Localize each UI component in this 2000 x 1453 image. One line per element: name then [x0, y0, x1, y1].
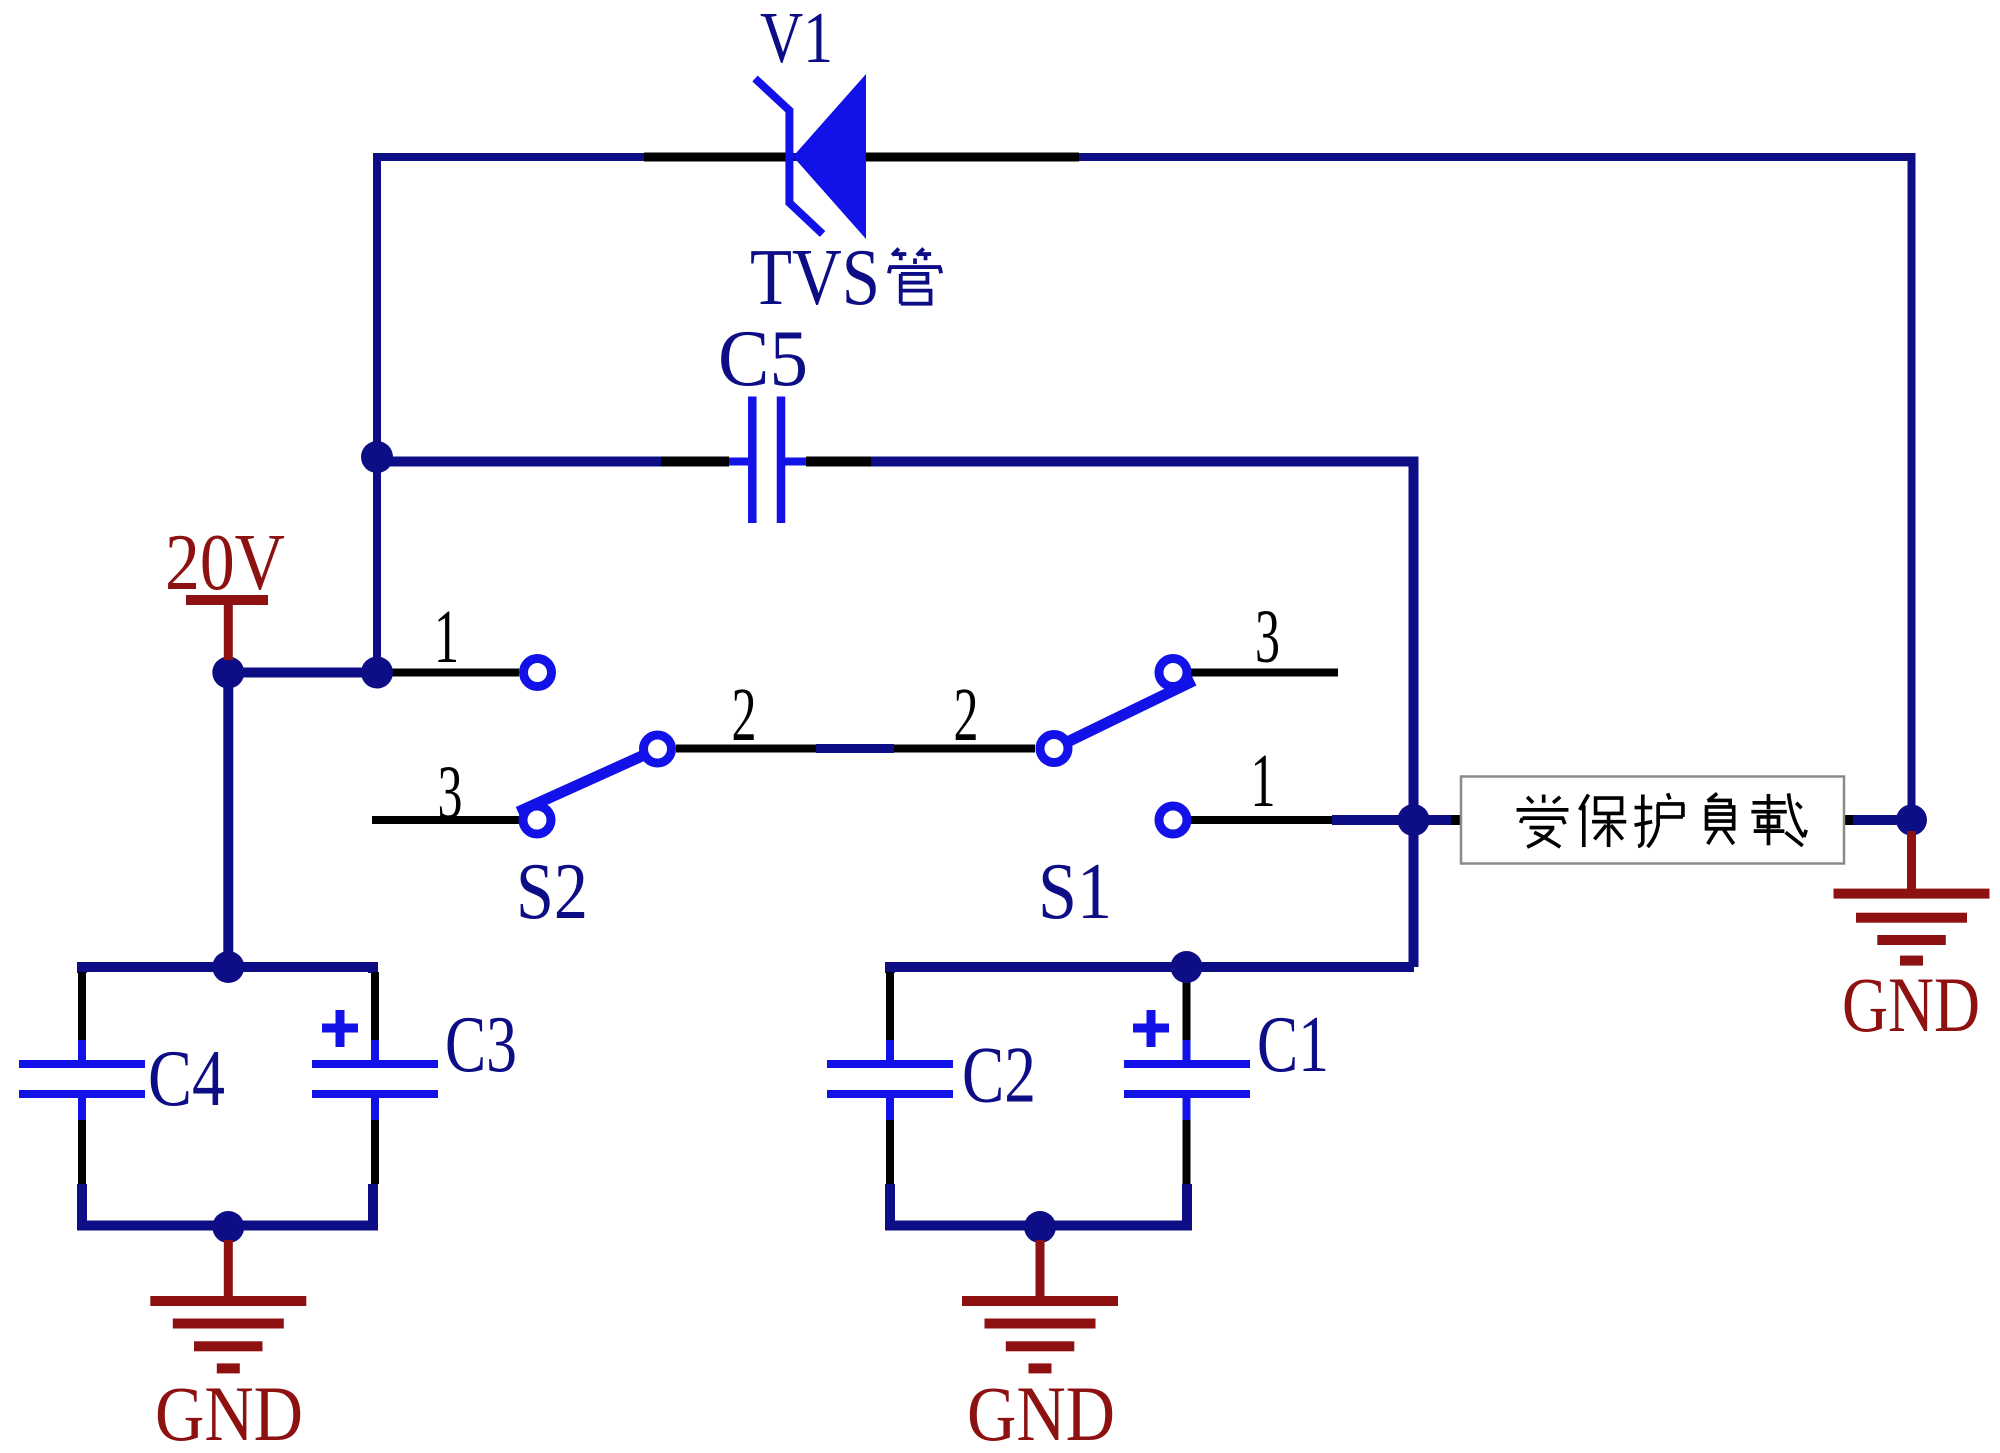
svg-text:V1: V1: [760, 0, 833, 78]
svg-text:GND: GND: [967, 1370, 1115, 1453]
svg-text:3: 3: [438, 751, 463, 835]
svg-text:2: 2: [732, 673, 757, 757]
svg-text:C2: C2: [962, 1032, 1036, 1120]
svg-text:S1: S1: [1038, 848, 1112, 936]
svg-text:GND: GND: [1842, 961, 1980, 1048]
svg-text:1: 1: [434, 595, 459, 679]
svg-text:C1: C1: [1257, 1001, 1329, 1089]
svg-text:C3: C3: [445, 1001, 517, 1089]
svg-text:2: 2: [954, 673, 979, 757]
svg-text:3: 3: [1255, 595, 1280, 679]
svg-text:20V: 20V: [165, 517, 285, 607]
svg-text:S2: S2: [516, 848, 588, 936]
svg-text:C4: C4: [148, 1035, 225, 1123]
svg-text:1: 1: [1251, 739, 1276, 823]
svg-text:TVS: TVS: [750, 234, 880, 322]
svg-text:C5: C5: [718, 315, 808, 403]
svg-text:GND: GND: [155, 1370, 303, 1453]
